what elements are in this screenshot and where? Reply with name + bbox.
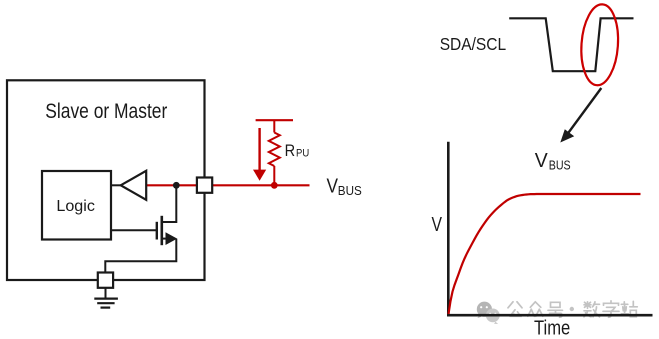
chart X axis xyxy=(447,314,653,317)
transistor Q1 channel bar xyxy=(161,216,164,245)
input buffer U2 xyxy=(121,171,147,200)
arrowhead to VBUS xyxy=(560,129,574,142)
pin square right (bus pin) xyxy=(197,178,212,193)
watermark logo bubbles xyxy=(477,302,500,324)
svg-text:Time: Time xyxy=(534,316,570,339)
chart Y axis xyxy=(447,142,450,316)
highlight ellipse on rising edge xyxy=(579,3,621,86)
ground bar 1 xyxy=(94,298,118,300)
resistor RPU zigzag xyxy=(269,133,280,167)
wire source to ground pin xyxy=(105,239,176,273)
SDA/SCL waveform xyxy=(509,18,633,71)
arrow ellipse to VBUS shaft xyxy=(566,88,601,136)
ground bar 2 xyxy=(97,302,114,304)
junction dot node SDA xyxy=(173,182,180,189)
wire drain xyxy=(162,185,177,222)
wire resistor to bus xyxy=(273,166,275,185)
pin square bottom (ground pin) xyxy=(98,273,113,288)
slave/master block outline xyxy=(7,80,205,280)
wire source with arrow xyxy=(162,238,167,240)
VBUS charge curve xyxy=(449,194,641,314)
net VBUS wire (red bus) xyxy=(146,184,310,186)
wire rail to resistor xyxy=(273,120,275,132)
source arrowhead xyxy=(166,232,178,245)
current arrowhead xyxy=(253,170,266,181)
current arrow shaft xyxy=(258,128,260,171)
svg-text:BUS: BUS xyxy=(338,184,362,198)
svg-text:Slave or Master: Slave or Master xyxy=(45,100,167,123)
logic block U1 xyxy=(42,171,111,240)
ground stem xyxy=(105,288,107,299)
svg-text:SDA/SCL: SDA/SCL xyxy=(440,34,507,54)
watermark text (hand-drawn CJK strokes) xyxy=(508,301,637,318)
svg-text:BUS: BUS xyxy=(549,158,571,172)
svg-text:V: V xyxy=(535,149,548,172)
junction dot node bus/RPU xyxy=(271,182,278,189)
svg-text:V: V xyxy=(432,214,443,236)
transistor Q1 gate bar xyxy=(156,222,158,240)
wire gate from logic xyxy=(111,229,158,231)
svg-text:V: V xyxy=(327,175,339,198)
wire logic to buffer xyxy=(111,184,121,186)
ground bar 3 xyxy=(101,307,111,309)
pull-up supply rail xyxy=(256,119,293,121)
svg-text:PU: PU xyxy=(296,147,309,159)
svg-text:R: R xyxy=(285,141,296,160)
svg-text:Logic: Logic xyxy=(56,198,95,215)
